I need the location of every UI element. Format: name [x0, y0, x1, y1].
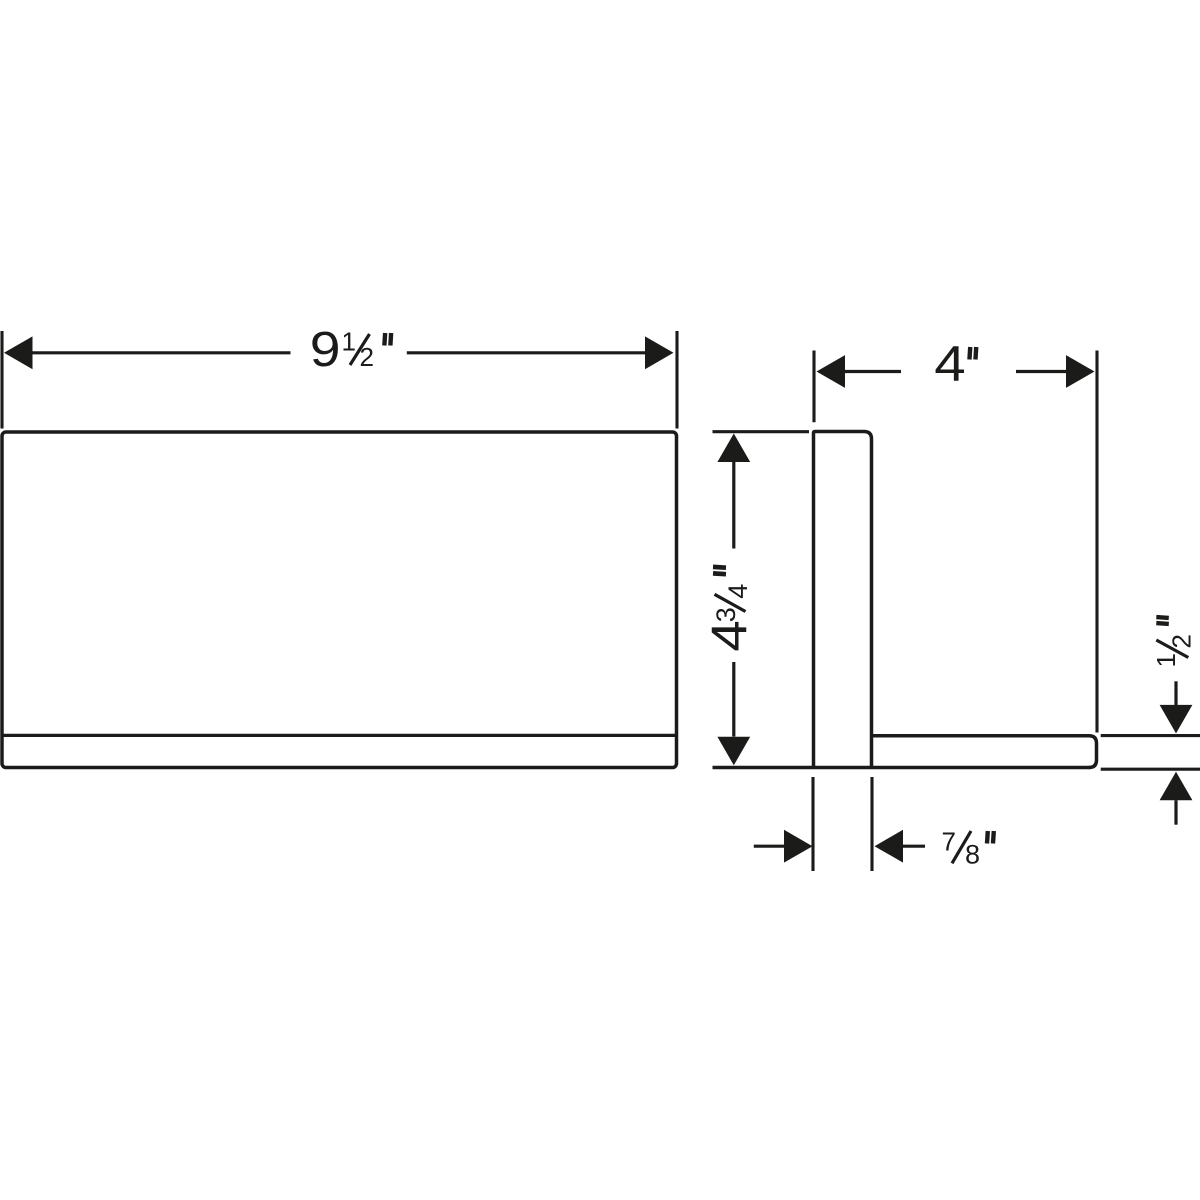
- front view panel outline: [2, 432, 677, 768]
- dim 4 arrowhead left: [817, 355, 846, 388]
- dim 1/2 extension line top: [1101, 734, 1200, 737]
- dim 9 1/2 arrowhead right: [645, 336, 674, 369]
- dim label 4": [934, 337, 976, 392]
- dim 7/8 extension line left: [811, 777, 814, 871]
- dim 4 arrowhead right: [1066, 355, 1095, 388]
- svg-text:8: 8: [965, 840, 980, 870]
- dim 7/8 right tail line: [903, 845, 925, 848]
- dim 4 3/4 arrowhead up: [717, 434, 750, 463]
- dim 1/2 arrowhead up: [1160, 772, 1193, 801]
- front view shelf edge line: [2, 734, 677, 737]
- dim label 1/2" rotated: [1151, 617, 1197, 667]
- svg-text:3: 3: [711, 607, 741, 622]
- dim 4 3/4 arrowhead down: [717, 737, 750, 766]
- dim 4 line left segment: [844, 370, 901, 373]
- dim 9 1/2 line right segment: [407, 351, 646, 354]
- wall plate (side view): [814, 432, 872, 770]
- dim 7/8 arrowhead pointing left: [875, 830, 904, 863]
- dim 9 1/2 arrowhead left: [4, 336, 33, 369]
- svg-text:2: 2: [360, 342, 374, 372]
- dim 1/2 extension line bottom: [1101, 768, 1200, 771]
- dim 4 3/4 line lower segment: [732, 662, 735, 737]
- dim 1/2 arrowhead down: [1160, 705, 1193, 734]
- svg-text:2: 2: [1166, 634, 1196, 648]
- dim label 4 3/4" rotated: [702, 567, 757, 652]
- dim 4 extension line left: [812, 351, 815, 423]
- dim 7/8 left tail line: [754, 845, 784, 848]
- dim 4 3/4 extension line top: [713, 430, 810, 433]
- svg-text:1: 1: [342, 327, 356, 357]
- svg-text:4: 4: [934, 337, 965, 392]
- dim label 7/8": [942, 826, 994, 869]
- dim 4 extension line right: [1095, 351, 1098, 733]
- dim 9 1/2 extension line right: [675, 331, 678, 429]
- svg-text:4: 4: [723, 584, 753, 599]
- dim 7/8 extension line right: [870, 777, 873, 871]
- dim 1/2 upper leader line: [1174, 681, 1177, 706]
- svg-text:9: 9: [310, 323, 341, 377]
- shelf (side view): [872, 736, 1097, 768]
- svg-text:7: 7: [942, 826, 956, 856]
- dim 9 1/2 extension line left: [0, 331, 3, 429]
- svg-text:1: 1: [1151, 653, 1181, 667]
- dim 7/8 arrowhead pointing right: [784, 830, 813, 863]
- dim 4 line right segment: [1016, 370, 1068, 373]
- dim 9 1/2 line left segment: [31, 351, 291, 354]
- profile bottom line: [713, 766, 1091, 770]
- dim 4 3/4 line upper segment: [732, 462, 735, 549]
- svg-text:4: 4: [702, 620, 757, 651]
- dim label 9 1/2": [310, 323, 391, 377]
- dim 1/2 lower leader line: [1174, 800, 1177, 825]
